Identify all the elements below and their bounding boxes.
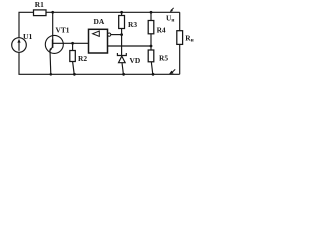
node A (top rail / VT1 collector) bbox=[51, 11, 54, 14]
junction R3 / top rail bbox=[120, 11, 123, 14]
wire DA non-inverting input to node D bbox=[108, 45, 152, 47]
junction R4 / top rail bbox=[150, 11, 153, 14]
resistor R5 bbox=[150, 46, 152, 50]
resistor R1 bbox=[34, 10, 47, 16]
wire top rail left bbox=[19, 12, 34, 38]
svg-text:R3: R3 bbox=[128, 20, 137, 29]
wire R5 bottom bbox=[151, 62, 153, 75]
svg-text:U1: U1 bbox=[23, 32, 33, 41]
wire collector bbox=[52, 12, 54, 40]
wire left vertical lower + bottom rail bbox=[19, 52, 180, 74]
resistor R4 bbox=[148, 21, 154, 34]
svg-text:VD: VD bbox=[130, 56, 141, 65]
wire right vertical top (to Rn) bbox=[179, 12, 181, 30]
svg-text:R5: R5 bbox=[159, 53, 168, 62]
svg-text:R2: R2 bbox=[78, 54, 87, 63]
wire right vertical bottom (from Rn) bbox=[179, 44, 181, 74]
wire R2 bottom bbox=[73, 62, 75, 75]
svg-text:R1: R1 bbox=[35, 0, 44, 9]
wire DA inverting input to node C bbox=[111, 34, 122, 36]
svg-text:VT1: VT1 bbox=[56, 26, 70, 35]
svg-text:R4: R4 bbox=[157, 25, 166, 34]
junction R2/bottom rail bbox=[73, 73, 76, 76]
op-amp DA bbox=[89, 17, 111, 53]
wire R3 top bbox=[121, 12, 123, 15]
junction VD / bottom rail bbox=[122, 73, 125, 76]
resistor R2 bbox=[70, 51, 76, 62]
node B (base / R2 / DA out) bbox=[71, 42, 74, 45]
resistor R3 bbox=[119, 16, 125, 29]
wire arrow top (current direction) bbox=[170, 8, 174, 12]
wire top rail middle bbox=[46, 11, 180, 13]
wire R2 top bbox=[72, 43, 74, 50]
transistor VT1 bbox=[45, 35, 88, 53]
wire arrow bottom (current direction) bbox=[169, 69, 175, 74]
wire R3 bottom / VD cathode bbox=[121, 29, 123, 56]
wire emitter bbox=[49, 51, 52, 75]
svg-text:DA: DA bbox=[94, 17, 105, 26]
junction R5 / bottom rail bbox=[152, 73, 155, 76]
wire R4 bottom bbox=[150, 34, 152, 46]
diode VD (zener) bbox=[117, 53, 126, 74]
resistor Rn (load) bbox=[177, 31, 183, 45]
node D (R4 / R5 / DA input) bbox=[150, 45, 153, 48]
node C (R3 / VD / DA input) bbox=[120, 33, 123, 36]
junction emitter/bottom rail bbox=[50, 73, 53, 76]
wire R4 top bbox=[150, 12, 152, 20]
source U1 bbox=[12, 38, 27, 53]
